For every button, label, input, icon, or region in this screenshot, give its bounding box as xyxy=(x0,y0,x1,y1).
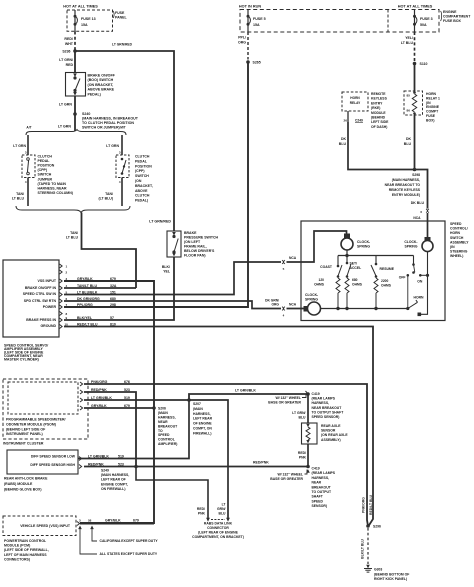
svg-text:LT GRN: LT GRN xyxy=(58,125,72,129)
RABS data link connector xyxy=(192,518,244,539)
svg-text:SENSOR): SENSOR) xyxy=(312,504,327,508)
svg-text:JUMPER: JUMPER xyxy=(38,177,53,181)
brake pressure switch xyxy=(167,231,181,257)
svg-text:FUSE 3: FUSE 3 xyxy=(420,17,433,21)
svg-text:S249: S249 xyxy=(101,469,109,473)
label LT GRN/RED vertical xyxy=(59,58,73,67)
svg-text:PEDAL): PEDAL) xyxy=(135,199,148,203)
label rear axle sensor xyxy=(321,424,348,442)
svg-text:FUSE: FUSE xyxy=(426,114,436,118)
svg-text:SENSOR: SENSOR xyxy=(321,429,336,433)
label servo module xyxy=(4,344,48,362)
svg-text:CLUTCH: CLUTCH xyxy=(135,194,150,198)
svg-text:C249: C249 xyxy=(355,119,363,123)
svg-text:HORN: HORN xyxy=(414,295,425,299)
label S249 xyxy=(101,469,129,491)
svg-text:LT GRN: LT GRN xyxy=(13,144,26,148)
svg-text:SPEED: SPEED xyxy=(158,433,170,437)
svg-text:NCA: NCA xyxy=(289,256,297,260)
coast switch branch xyxy=(314,256,342,294)
node S110 xyxy=(413,62,428,66)
svg-text:LT GRN: LT GRN xyxy=(59,103,73,107)
svg-text:NEAR: NEAR xyxy=(312,481,322,485)
svg-text:COAST: COAST xyxy=(320,265,333,269)
wire servo pin6 to NCA 4 DK GRN/ORG xyxy=(64,298,304,308)
svg-text:S296: S296 xyxy=(373,525,381,529)
set/accel switch branch xyxy=(345,256,363,294)
svg-text:DK: DK xyxy=(341,137,347,141)
wire PSOM GRY/BLK 679 to S206 xyxy=(84,407,154,409)
svg-text:RED/: RED/ xyxy=(197,507,205,511)
wire PSOM PNK/ORG 676 to ground xyxy=(84,384,368,526)
label RKE module xyxy=(371,92,389,129)
svg-text:ASSEMBLY: ASSEMBLY xyxy=(450,240,469,244)
svg-text:(REAR LAMPS: (REAR LAMPS xyxy=(312,471,336,475)
brake on/off switch B00 xyxy=(66,73,86,97)
wire M/T branch lower xyxy=(98,178,122,207)
label PNK/ORG vertical xyxy=(362,497,366,513)
svg-text:BRAKE: BRAKE xyxy=(184,231,197,235)
svg-text:HARNESS, NEAR: HARNESS, NEAR xyxy=(38,186,67,190)
svg-text:HARNESS,: HARNESS, xyxy=(312,401,330,405)
svg-text:S240: S240 xyxy=(82,112,90,116)
svg-text:TAN/: TAN/ xyxy=(105,192,113,196)
svg-text:519: 519 xyxy=(118,454,124,458)
clock-spring (top right) xyxy=(404,237,433,252)
wire BLK/YEL to servo pin9 xyxy=(64,257,174,320)
svg-text:120: 120 xyxy=(318,278,324,282)
svg-text:RIGHT KICK PANEL): RIGHT KICK PANEL) xyxy=(374,577,407,581)
wire PSOM RED/PNK 523 to S249 xyxy=(84,392,136,467)
svg-text:(MAIN HARNESS,: (MAIN HARNESS, xyxy=(101,473,129,477)
RABS pin LT GRN/BLK xyxy=(79,454,124,460)
label LT GRN lower xyxy=(58,125,72,129)
svg-text:BLK/: BLK/ xyxy=(162,265,170,269)
label W/132 wheelbase lower xyxy=(270,470,307,482)
svg-text:A/T: A/T xyxy=(26,126,31,130)
svg-text:MODULE: MODULE xyxy=(371,111,386,115)
svg-text:BREAKOUT: BREAKOUT xyxy=(312,485,332,489)
svg-text:(REAR LAMPS: (REAR LAMPS xyxy=(312,397,336,401)
label PCM xyxy=(4,539,49,561)
wire rear axle sensor to C419 lower xyxy=(298,444,308,467)
svg-text:(MAIN: (MAIN xyxy=(158,411,168,415)
svg-text:REMOTE KEYLESS: REMOTE KEYLESS xyxy=(389,188,421,192)
svg-text:GRY/BLK: GRY/BLK xyxy=(105,519,121,523)
wire relay1 to S298 DK BLU xyxy=(404,115,415,170)
wire S207 right to DLC xyxy=(189,400,228,518)
svg-text:58: 58 xyxy=(88,519,92,523)
svg-text:CONNECTOR: CONNECTOR xyxy=(207,526,229,530)
PCM internal label xyxy=(20,524,71,528)
svg-text:BELOW DRIVER'S: BELOW DRIVER'S xyxy=(184,249,215,253)
svg-text:HORN: HORN xyxy=(450,231,461,235)
svg-text:FUSE 5: FUSE 5 xyxy=(253,17,266,21)
svg-text:85: 85 xyxy=(407,94,411,98)
svg-text:(BEHIND LEFT SIDE OF: (BEHIND LEFT SIDE OF xyxy=(6,427,46,431)
fuse panel label xyxy=(113,11,127,20)
horn relay 1 (dashed box) xyxy=(404,91,423,115)
svg-text:GRN/: GRN/ xyxy=(217,507,226,511)
wire S298 to NCA 6 xyxy=(411,170,428,209)
svg-text:REAR ANTI-LOCK BRAKE: REAR ANTI-LOCK BRAKE xyxy=(4,477,48,481)
svg-text:CLOCK-: CLOCK- xyxy=(404,240,417,244)
svg-text:FUSE 13: FUSE 13 xyxy=(81,17,96,21)
svg-text:RED/: RED/ xyxy=(64,37,73,41)
svg-text:TAN/: TAN/ xyxy=(16,192,24,196)
RABS internal labels xyxy=(30,455,75,467)
label instrument cluster xyxy=(3,442,44,446)
svg-text:HOT AT ALL TIMES: HOT AT ALL TIMES xyxy=(398,5,433,9)
svg-text:BLK/LT BLU: BLK/LT BLU xyxy=(361,539,365,559)
svg-text:SPEED: SPEED xyxy=(450,222,462,226)
svg-text:S206: S206 xyxy=(158,407,166,411)
svg-text:STEERING: STEERING xyxy=(450,250,468,254)
svg-text:15A: 15A xyxy=(253,23,260,27)
instrument cluster box (dashed) xyxy=(3,379,88,439)
svg-text:S265: S265 xyxy=(253,60,261,64)
svg-text:LT GRN/BLK: LT GRN/BLK xyxy=(88,454,109,458)
svg-text:COMPARTMENT: COMPARTMENT xyxy=(443,15,471,19)
split brace A/T M/T xyxy=(26,126,126,136)
node C419 lower xyxy=(306,465,310,473)
node S240 xyxy=(73,112,77,116)
svg-text:BASE OR GREATER: BASE OR GREATER xyxy=(270,477,303,481)
svg-text:ON: ON xyxy=(417,280,423,284)
svg-text:VSS INPUT: VSS INPUT xyxy=(38,279,57,283)
svg-text:TO OUTPUT SHAFT: TO OUTPUT SHAFT xyxy=(312,410,345,414)
svg-text:BLU: BLU xyxy=(404,142,412,146)
svg-text:VEHICLE SPEED (VSS) INPUT: VEHICLE SPEED (VSS) INPUT xyxy=(20,524,71,528)
svg-text:OHMS: OHMS xyxy=(381,284,392,288)
svg-text:SET/: SET/ xyxy=(350,262,358,266)
svg-text:SWITCH: SWITCH xyxy=(135,174,149,178)
svg-text:RESUME: RESUME xyxy=(380,267,395,271)
svg-text:POWER: POWER xyxy=(43,305,57,309)
svg-text:50A: 50A xyxy=(420,23,427,27)
label brake on/off switch xyxy=(88,74,116,97)
on/off switch xyxy=(399,256,429,309)
svg-text:BREAKOUT: BREAKOUT xyxy=(158,424,178,428)
svg-text:ENTRY: ENTRY xyxy=(371,101,383,105)
resume switch branch xyxy=(371,256,395,294)
PSOM pin 4 xyxy=(80,404,130,410)
svg-text:(BOO) SWITCH: (BOO) SWITCH xyxy=(88,78,114,82)
connector NCA pin5 xyxy=(282,256,297,271)
svg-text:ABOVE: ABOVE xyxy=(135,189,148,193)
engine compartment fuse box (dashed) xyxy=(240,10,439,33)
svg-text:BRACKET,: BRACKET, xyxy=(135,184,153,188)
svg-text:ENGINE COMPT,: ENGINE COMPT, xyxy=(101,482,128,486)
svg-text:SWITCH: SWITCH xyxy=(38,173,52,177)
svg-text:MODULE (PCM): MODULE (PCM) xyxy=(4,544,30,548)
svg-text:BASE OR GREATER: BASE OR GREATER xyxy=(268,401,301,405)
svg-text:(CPP): (CPP) xyxy=(135,169,145,173)
node S236 xyxy=(62,49,76,53)
label PSOM xyxy=(6,418,66,437)
svg-text:ODOMETER MODULE (PSOM): ODOMETER MODULE (PSOM) xyxy=(6,422,56,426)
svg-text:679: 679 xyxy=(133,519,139,523)
svg-text:BRAKE ON/OFF: BRAKE ON/OFF xyxy=(88,74,116,78)
svg-text:PNK/ORG: PNK/ORG xyxy=(362,497,366,513)
svg-text:LT GRN: LT GRN xyxy=(106,144,119,148)
svg-text:LEFT REAR: LEFT REAR xyxy=(193,417,213,421)
svg-text:ABOVE BRAKE: ABOVE BRAKE xyxy=(88,88,115,92)
svg-text:NCA: NCA xyxy=(413,216,421,220)
svg-text:ACCEL: ACCEL xyxy=(350,266,362,270)
node S249 xyxy=(134,465,138,469)
svg-text:ON FIREWALL): ON FIREWALL) xyxy=(101,487,125,491)
svg-text:(ON: (ON xyxy=(135,179,142,183)
node S265 xyxy=(246,60,261,64)
RKE horn relay (dashed box) xyxy=(342,92,368,111)
note california arrow xyxy=(90,526,158,544)
svg-text:86: 86 xyxy=(407,109,411,113)
svg-text:PEDAL): PEDAL) xyxy=(88,92,102,96)
svg-text:LEFT SIDE: LEFT SIDE xyxy=(371,120,389,124)
node S207 xyxy=(187,398,191,402)
svg-text:(IN: (IN xyxy=(450,245,455,249)
fuse F5 15A xyxy=(247,10,266,33)
svg-text:LT BLU: LT BLU xyxy=(66,236,79,240)
svg-text:SHAFT: SHAFT xyxy=(312,495,324,499)
label RED/PNK (DLC) xyxy=(197,507,206,516)
svg-text:(RABS) MODULE: (RABS) MODULE xyxy=(4,482,33,486)
svg-text:M/T: M/T xyxy=(120,126,126,130)
wire fuse3 to S110 YEL/LT BLU xyxy=(401,32,415,61)
svg-text:TAN/: TAN/ xyxy=(70,231,78,235)
svg-text:COMPT: COMPT xyxy=(426,110,439,114)
svg-text:HORN: HORN xyxy=(350,96,360,100)
svg-text:(ON REAR AXLE: (ON REAR AXLE xyxy=(321,433,348,437)
svg-text:HOT IN RUN: HOT IN RUN xyxy=(239,5,261,9)
PCM pins 3 58 xyxy=(77,519,92,526)
svg-text:TO OUTPUT: TO OUTPUT xyxy=(312,490,332,494)
note all states arrow xyxy=(78,526,158,557)
label CPP switch xyxy=(135,155,153,203)
label S207 xyxy=(193,402,213,435)
svg-text:CLUTCH: CLUTCH xyxy=(38,155,53,159)
svg-text:KEYLESS: KEYLESS xyxy=(371,97,388,101)
label S298 xyxy=(385,173,421,197)
svg-text:LT BLU: LT BLU xyxy=(12,197,25,201)
svg-text:(MAIN: (MAIN xyxy=(193,407,203,411)
svg-text:(IN: (IN xyxy=(426,101,431,105)
svg-text:WHEEL): WHEEL) xyxy=(450,254,463,258)
fuse panel box (dashed) xyxy=(67,10,113,31)
svg-text:LT GRN/: LT GRN/ xyxy=(292,411,305,415)
RKE pin 26 C249 xyxy=(344,111,364,123)
svg-text:LEFT OF MAIN HARNESS: LEFT OF MAIN HARNESS xyxy=(4,553,47,557)
svg-text:DK: DK xyxy=(406,137,412,141)
svg-text:(BEHIND GLOVE BOX): (BEHIND GLOVE BOX) xyxy=(4,488,42,492)
wire TAN/LT BLU to servo pin4 xyxy=(66,213,136,289)
svg-text:BLU: BLU xyxy=(339,142,347,146)
svg-text:COMPARTMENT, ON BRACKET): COMPARTMENT, ON BRACKET) xyxy=(192,535,244,539)
svg-text:SPEED SENSOR): SPEED SENSOR) xyxy=(312,415,340,419)
svg-text:INSTRUMENT PANEL): INSTRUMENT PANEL) xyxy=(6,432,43,436)
svg-text:(BEHIND: (BEHIND xyxy=(371,116,386,120)
svg-text:CONTROL: CONTROL xyxy=(158,438,175,442)
wire servo pin3 GRY/BLK 679 xyxy=(64,281,154,523)
label LT GRN/BLU (DLC) xyxy=(217,503,226,516)
svg-text:(LT BLU): (LT BLU) xyxy=(98,197,113,201)
wire PSOM LT GRN/BLK 519 to S207 xyxy=(84,399,189,401)
svg-text:SPD CTRL SW RTN: SPD CTRL SW RTN xyxy=(24,299,57,303)
servo pin 7 xyxy=(60,303,116,309)
ground G303 xyxy=(364,565,409,581)
label HOT IN RUN xyxy=(239,5,261,9)
bottom bus wire xyxy=(321,293,408,310)
svg-text:57: 57 xyxy=(110,316,114,320)
svg-text:SPEED CTRL SW IN: SPEED CTRL SW IN xyxy=(23,292,57,296)
speed control servo/amplifier box xyxy=(3,260,59,337)
svg-text:(ON BRACKET,: (ON BRACKET, xyxy=(88,83,114,87)
svg-text:(LEFT REAR OF ENGINE: (LEFT REAR OF ENGINE xyxy=(198,531,238,535)
svg-text:W/ 132" WHEEL: W/ 132" WHEEL xyxy=(275,396,301,400)
svg-text:SPEED: SPEED xyxy=(312,499,324,503)
svg-text:ORG: ORG xyxy=(271,303,279,307)
top bus wire xyxy=(338,250,414,257)
svg-text:POWERTRAIN CONTROL: POWERTRAIN CONTROL xyxy=(4,539,47,543)
label engine compartment fuse box xyxy=(441,10,472,23)
speed control/horn switch assembly box xyxy=(301,221,445,321)
servo pin 5 xyxy=(60,290,116,296)
wire S249 to RABS DLC xyxy=(136,467,208,519)
svg-text:LT GRN/RED: LT GRN/RED xyxy=(112,43,133,47)
svg-text:(RKE): (RKE) xyxy=(371,106,380,110)
servo pin 4 xyxy=(60,284,117,290)
svg-text:W/ 132" WHEEL: W/ 132" WHEEL xyxy=(277,473,303,477)
label HOT AT ALL TIMES (right) xyxy=(398,5,433,9)
svg-text:S110: S110 xyxy=(420,62,428,66)
svg-text:FUSE BOX: FUSE BOX xyxy=(443,19,462,23)
svg-text:REAR AXLE: REAR AXLE xyxy=(321,424,341,428)
label W/132 wheelbase upper xyxy=(268,395,306,405)
svg-text:LT GRN/RED: LT GRN/RED xyxy=(149,220,171,224)
svg-text:OFF: OFF xyxy=(399,276,406,280)
node S206 xyxy=(152,406,156,410)
wire BLK/LT BLU dashed to ground xyxy=(361,528,369,564)
svg-text:RELAY: RELAY xyxy=(350,101,361,105)
label S206 xyxy=(158,407,178,447)
svg-text:LT GRN/BLK: LT GRN/BLK xyxy=(235,389,256,393)
svg-text:FRAME RAIL,: FRAME RAIL, xyxy=(184,245,207,249)
svg-text:(MAIN HARNESS,: (MAIN HARNESS, xyxy=(392,178,420,182)
svg-text:RELAY 1: RELAY 1 xyxy=(426,96,440,100)
servo pin 9 xyxy=(60,316,114,322)
svg-text:C419: C419 xyxy=(312,392,320,396)
wire A/T branch lower xyxy=(12,178,28,207)
label RED/WHT xyxy=(64,37,73,46)
svg-text:CLUTCH: CLUTCH xyxy=(135,155,150,159)
rear axle sensor box xyxy=(302,423,318,444)
svg-text:CLOCK-: CLOCK- xyxy=(357,240,370,244)
svg-text:(LEFT SIDE OF FIREWALL,: (LEFT SIDE OF FIREWALL, xyxy=(4,548,49,552)
servo pin 3 xyxy=(60,277,116,283)
PSOM pin 1 xyxy=(80,380,130,386)
label C419 lower xyxy=(312,467,336,509)
RABS module box xyxy=(7,450,78,474)
wire S110 to horn relay1 xyxy=(414,64,416,92)
CPP switch jumper (dashed box) xyxy=(22,155,35,178)
svg-text:OHMS: OHMS xyxy=(314,283,325,287)
servo internal pin labels xyxy=(23,279,57,328)
label RED/LT BLU vertical xyxy=(369,495,373,515)
servo pin stubs 1 2 8 xyxy=(60,264,68,316)
label C419 upper xyxy=(312,392,345,419)
svg-text:HOT AT ALL TIMES: HOT AT ALL TIMES xyxy=(63,5,98,9)
svg-text:FLOOR PAN): FLOOR PAN) xyxy=(184,254,206,258)
label S240 xyxy=(82,112,139,130)
svg-text:LT BLU: LT BLU xyxy=(401,41,414,45)
svg-text:PEDAL: PEDAL xyxy=(135,159,148,163)
label brake pressure switch xyxy=(184,231,219,258)
wire BOO to S240 xyxy=(59,96,75,131)
svg-text:ALL STATES EXCEPT SUPER DUTY: ALL STATES EXCEPT SUPER DUTY xyxy=(100,552,158,556)
svg-text:(CPP): (CPP) xyxy=(38,168,48,172)
label RABS module xyxy=(4,477,48,492)
merge brace to TAN/LT BLU xyxy=(16,206,130,213)
svg-text:OHMS: OHMS xyxy=(352,283,363,287)
svg-text:AMPLIFIER): AMPLIFIER) xyxy=(158,442,177,446)
svg-text:HARNESS,: HARNESS, xyxy=(193,412,211,416)
svg-text:YEL/: YEL/ xyxy=(405,36,413,40)
wire fuse13 to S236 xyxy=(74,32,76,74)
svg-text:ENGINE: ENGINE xyxy=(426,105,440,109)
svg-text:POSITION: POSITION xyxy=(38,164,55,168)
svg-text:S298: S298 xyxy=(412,173,420,177)
svg-text:PANEL: PANEL xyxy=(115,16,127,20)
wire A/T branch xyxy=(13,135,28,155)
svg-text:680: 680 xyxy=(352,278,358,282)
servo pin 6 xyxy=(60,297,116,303)
svg-text:OF DASH): OF DASH) xyxy=(371,125,387,129)
wire GRY/BLK 679 PCM row xyxy=(80,519,154,524)
PSOM box (dashed) xyxy=(8,382,78,414)
svg-text:STEERING COLUMN): STEERING COLUMN) xyxy=(38,191,73,195)
svg-text:TO CLUTCH PEDAL POSITION: TO CLUTCH PEDAL POSITION xyxy=(82,121,134,125)
svg-text:NEAR: NEAR xyxy=(158,420,168,424)
svg-text:FUSE: FUSE xyxy=(115,11,125,15)
PSOM pin 3 xyxy=(80,396,130,402)
connector NCA pin6 xyxy=(413,209,429,220)
svg-text:PPL/: PPL/ xyxy=(238,36,246,40)
svg-text:(TAPED TO MAIN: (TAPED TO MAIN xyxy=(38,182,67,186)
svg-text:(BEHIND BOTTOM OF: (BEHIND BOTTOM OF xyxy=(374,572,409,576)
servo pin 10 xyxy=(60,322,116,328)
wire S207 up to LT GRN/BLK line xyxy=(189,389,308,401)
svg-text:CALIFORNIA EXCEPT SUPER DUTY: CALIFORNIA EXCEPT SUPER DUTY xyxy=(100,539,159,543)
svg-text:BLU: BLU xyxy=(219,512,227,516)
svg-text:S207: S207 xyxy=(193,402,201,406)
svg-text:LT GRN/: LT GRN/ xyxy=(59,58,73,62)
svg-text:NCA: NCA xyxy=(289,303,297,307)
horn switch xyxy=(406,252,427,317)
svg-text:15A: 15A xyxy=(81,23,88,27)
svg-text:NEAR BREAKOUT TO: NEAR BREAKOUT TO xyxy=(385,183,421,187)
svg-text:PRESSURE SWITCH: PRESSURE SWITCH xyxy=(184,236,219,240)
svg-text:BLU: BLU xyxy=(299,416,307,420)
svg-text:2200: 2200 xyxy=(381,279,389,283)
svg-text:INSTRUMENT CLUSTER: INSTRUMENT CLUSTER xyxy=(3,442,44,446)
svg-text:WHT: WHT xyxy=(65,42,74,46)
svg-text:DIFF SPEED SENSOR HIGH: DIFF SPEED SENSOR HIGH xyxy=(30,463,75,467)
svg-text:RED/: RED/ xyxy=(298,451,306,455)
svg-text:CONNECTORS): CONNECTORS) xyxy=(4,557,30,561)
svg-text:ASSEMBLY): ASSEMBLY) xyxy=(321,438,341,442)
svg-text:BRAKE PRESS IN: BRAKE PRESS IN xyxy=(26,318,56,322)
